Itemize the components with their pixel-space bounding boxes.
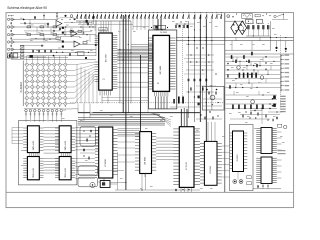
svg-text:TMS 4416: TMS 4416 — [65, 167, 67, 177]
svg-text:MC 6803: MC 6803 — [160, 65, 162, 74]
svg-text:16K RAM: 16K RAM — [144, 157, 147, 166]
svg-text:Z9 MOD: Z9 MOD — [237, 154, 239, 161]
svg-text:TMS 4416: TMS 4416 — [33, 167, 35, 177]
svg-text:Z8 LS04: Z8 LS04 — [210, 166, 212, 173]
svg-text:TMS 4416: TMS 4416 — [33, 140, 35, 150]
svg-text:Z1 6847: Z1 6847 — [99, 29, 105, 31]
svg-text:TMS 4416: TMS 4416 — [65, 140, 67, 150]
svg-text:Schéma électrique Alice 90: Schéma électrique Alice 90 — [7, 6, 47, 10]
svg-text:Z7 9C40: Z7 9C40 — [186, 161, 188, 170]
svg-text:MC 6847: MC 6847 — [106, 53, 108, 62]
svg-text:Z4 6803: Z4 6803 — [160, 32, 167, 34]
svg-text:CLAVIER: CLAVIER — [20, 82, 23, 93]
svg-text:Z3 ROM: Z3 ROM — [105, 159, 107, 167]
